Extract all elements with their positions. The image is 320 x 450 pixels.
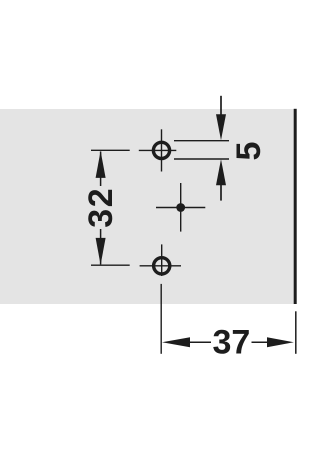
- panel: [0, 109, 295, 304]
- dimension 37 : extension line left (below hole H2): [160, 284, 162, 354]
- svg-text:5: 5: [230, 142, 268, 161]
- dimension 37 : dimension line with arrows: [162, 337, 294, 347]
- svg-text:32: 32: [82, 187, 120, 228]
- dimension 32 : extension line bottom: [91, 264, 130, 266]
- dimension 5 : lower arrow: [216, 159, 226, 200]
- dimension 37 : extension line right (below panel edge): [295, 311, 297, 354]
- slot width lines (5 mm gap): [174, 141, 229, 159]
- dimension 5 : upper arrow: [216, 96, 226, 140]
- hole H2 (bottom, with centre cross): [140, 244, 181, 276]
- dimension 32 : dimension line with arrows: [96, 151, 106, 265]
- dimension 32 : extension line top: [91, 149, 130, 151]
- hole H1 (top, with centre cross): [139, 129, 177, 171]
- panel front edge: [294, 109, 297, 304]
- centre mark (system screw position): [156, 183, 205, 232]
- svg-text:37: 37: [212, 323, 250, 361]
